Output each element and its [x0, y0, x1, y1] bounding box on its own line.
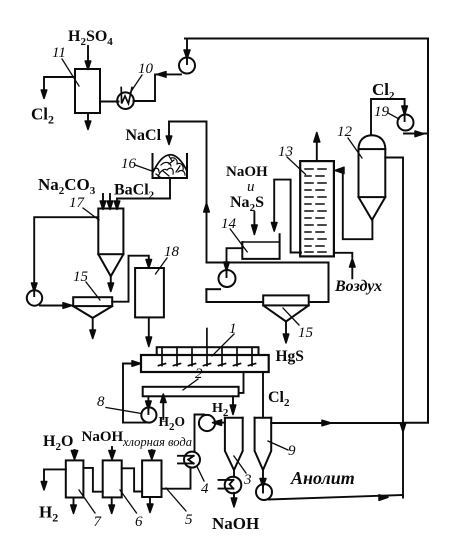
svg-text:Cl2: Cl2 — [268, 389, 290, 409]
label i (and) — [247, 179, 255, 195]
svg-text:H2: H2 — [212, 401, 229, 419]
salt dissolver 16 — [153, 154, 188, 178]
filter 15 (right) — [263, 295, 309, 321]
wire pump to heat exchanger 10 — [134, 72, 182, 101]
wire NaOH product arrow — [231, 493, 237, 507]
svg-text:NaOH: NaOH — [82, 429, 124, 445]
pump (chlorine water pump) — [199, 415, 215, 431]
label 6 — [120, 490, 143, 530]
vessel 12 (chlorine separator) — [359, 135, 386, 220]
wire overflow pipe from column 13 to vessel 14 — [271, 180, 301, 253]
svg-text:H2SO4: H2SO4 — [68, 28, 113, 48]
wire air inlet to column 13 — [334, 253, 355, 278]
svg-text:5: 5 — [185, 512, 193, 528]
label Cl2 (cell gas) — [268, 389, 290, 409]
wire tower 5 to tower 6 — [122, 468, 142, 491]
label 8 — [97, 394, 142, 414]
label 2 — [183, 366, 203, 390]
wire tower 5 feed arrow — [149, 450, 155, 460]
label Na2S — [230, 194, 264, 214]
vessel 3 (hydrogen separator) — [225, 418, 243, 470]
wire column 13 vent arrow — [314, 133, 320, 162]
wire vessel 12 vent to pump 19 — [371, 99, 407, 135]
svg-text:9: 9 — [288, 443, 296, 459]
svg-text:18: 18 — [164, 244, 180, 260]
label Na2CO3 — [38, 175, 96, 197]
svg-text:Воздух: Воздух — [334, 278, 382, 295]
wire mercury return into electrolyzer — [123, 361, 141, 423]
svg-text:7: 7 — [94, 514, 103, 530]
label chlorine water — [122, 435, 192, 449]
label BaCl2 — [114, 182, 155, 202]
vessel 17 (brine purification reactor) — [98, 209, 123, 277]
svg-text:12: 12 — [337, 124, 353, 140]
wire pump to filter 15 left — [40, 303, 73, 309]
svg-text:Cl2: Cl2 — [372, 80, 395, 102]
pump (in wash duct) — [219, 270, 236, 287]
label 13 — [278, 144, 306, 174]
label 16 — [121, 156, 152, 172]
label H2O (decomposer feed) — [159, 414, 186, 433]
filter 15 (left) — [73, 297, 112, 318]
label Vozdukh (air) — [334, 278, 382, 295]
label 18 — [156, 244, 180, 274]
wire decomposer to pump 8 — [146, 396, 152, 414]
svg-text:6: 6 — [135, 514, 143, 530]
wire vessel 9 to pump — [260, 470, 266, 493]
wire anolyte pump discharge to right bus — [269, 495, 403, 501]
label 15 right — [283, 308, 314, 341]
wire filter 15 right HgS arrow — [283, 322, 289, 344]
wire Na2CO3 feed arrows — [100, 194, 113, 210]
wire filter 15 left sludge arrow — [90, 318, 96, 339]
wire vessel 11 bottom outlet arrow — [85, 113, 91, 130]
tower 7 — [66, 460, 84, 497]
svg-text:H2: H2 — [39, 503, 58, 525]
label H2O (tower 7 feed) — [43, 433, 73, 453]
vessel 11 (H2SO4 drying tower) — [75, 69, 100, 113]
label NaOH (tank feed) — [226, 164, 268, 180]
wire vessel 17 cone outlet arrow — [108, 276, 114, 291]
svg-text:хлорная вода: хлорная вода — [122, 435, 192, 449]
svg-text:H2O: H2O — [43, 433, 73, 453]
label HgS — [276, 348, 304, 365]
pump (anolyte pump bottom) — [256, 484, 272, 500]
tower 5 — [142, 460, 161, 497]
svg-text:19: 19 — [374, 104, 390, 120]
wire vessel 12 cone to column 13 feed — [335, 167, 372, 239]
svg-text:HgS: HgS — [276, 348, 304, 365]
wire top bus into pump — [184, 39, 190, 65]
wire right bus — [400, 39, 428, 433]
svg-text:16: 16 — [121, 156, 137, 172]
pump 8 (mercury pump) — [141, 407, 156, 422]
decomposer 2 — [143, 387, 239, 397]
wire vessel 18 outlet to electrolyzer — [146, 317, 152, 346]
electrolyzer 1 anodes — [159, 329, 256, 366]
label NaOH (tower 6 feed) — [82, 429, 124, 445]
label 12 — [337, 124, 362, 158]
wire NaCl arrow into dissolver — [166, 122, 172, 145]
wire tower 6 feed arrow — [109, 447, 115, 460]
wire anolyte top line to junction — [271, 420, 403, 426]
svg-text:NaCl: NaCl — [126, 127, 162, 144]
wire vessel 17 side outlet to pump — [31, 217, 98, 296]
heat exchanger under vessel 3 — [219, 470, 242, 493]
svg-text:11: 11 — [52, 45, 66, 61]
column 13 (aeration column) — [300, 161, 334, 256]
wire vessel 11 to heat exchanger 10 — [100, 101, 119, 103]
label H2 (decomposer gas) — [212, 401, 229, 419]
wire pump 8 discharge — [123, 422, 149, 424]
label 7 — [79, 490, 103, 530]
svg-text:3: 3 — [243, 472, 252, 488]
wire pump 19 discharge to bus — [404, 131, 428, 137]
heat exchanger 4 — [178, 452, 200, 468]
tower 6 — [103, 460, 122, 497]
label NaCl — [126, 127, 162, 144]
svg-text:NaOH: NaOH — [226, 164, 268, 180]
label 10 — [130, 61, 154, 93]
label H2SO4 — [68, 28, 113, 48]
svg-text:15: 15 — [298, 325, 314, 341]
svg-text:Анолит: Анолит — [290, 468, 355, 488]
label 15 left — [73, 269, 100, 300]
wire NaOH/Na2S feed arrow — [252, 212, 258, 235]
wire tower 6 bottom arrow — [109, 497, 115, 513]
wire H2SO4 feed arrow — [85, 46, 91, 70]
svg-text:и: и — [247, 179, 255, 195]
wire Cl2 outlet left — [41, 77, 75, 99]
pump 19 (chlorine blower) — [398, 115, 414, 131]
wire HX 4 to tower 5 — [162, 467, 191, 488]
wire brine recycle riser — [169, 122, 209, 263]
wire tower 7 bottom arrow — [71, 498, 77, 514]
label NaOH product — [212, 514, 259, 533]
wire tower 7 feed arrow — [71, 450, 77, 460]
svg-text:H2O: H2O — [159, 414, 186, 433]
vessel 18 (purified brine tank) — [135, 268, 164, 317]
wire vessel 14 outlet to duct pump — [224, 248, 243, 277]
label 14 — [221, 216, 247, 252]
wire Cl2 line to vessel 9 — [262, 372, 264, 418]
vessel 9 (anolyte separator) — [255, 418, 272, 470]
svg-text:8: 8 — [97, 394, 105, 410]
pump (brine slurry pump left) — [27, 290, 42, 305]
wire tower 5 bottom arrow — [147, 497, 153, 513]
label 5 — [166, 488, 193, 528]
wire vessel 12 outlet down the right — [385, 158, 403, 498]
svg-text:Na2CO3: Na2CO3 — [38, 175, 96, 197]
wire H2 outlet to vessel 3 — [230, 396, 236, 414]
svg-text:10: 10 — [138, 61, 154, 77]
svg-text:Cl2: Cl2 — [31, 105, 54, 127]
label Cl2 left — [31, 105, 54, 127]
wire electrolyzer to decomposer (mercury amalgam) — [239, 372, 244, 393]
label 11 — [52, 45, 79, 86]
label 19 — [374, 104, 399, 120]
label 4 — [197, 467, 209, 498]
wire chlorine water pump discharge to HX 4 — [195, 415, 205, 452]
wire tower 6 to tower 7 — [83, 468, 102, 492]
wire vessel 3 side outlet to pump — [213, 420, 225, 426]
svg-text:14: 14 — [221, 216, 237, 232]
duct (wash trough) — [206, 263, 328, 303]
electrolyzer 1 body — [141, 355, 269, 372]
wire top bus — [185, 38, 428, 40]
label 1 — [212, 321, 237, 356]
wire H2O feed to decomposer — [161, 394, 167, 419]
pump (chlorine gas blower top-left) — [179, 58, 195, 74]
svg-text:Na2S: Na2S — [230, 194, 264, 214]
label 17 — [69, 195, 99, 220]
label Anolyte — [290, 468, 355, 488]
wire H2 outlet from tower 7 — [41, 469, 66, 490]
electrolyzer 1 cover — [157, 347, 259, 355]
svg-text:13: 13 — [278, 144, 293, 160]
svg-text:4: 4 — [201, 481, 209, 497]
label 3 — [234, 456, 252, 488]
label Cl2 (to pump 19) — [372, 80, 395, 102]
heat exchanger 10 — [117, 88, 134, 109]
label H2 (tail gas) — [39, 503, 58, 525]
wire dissolver outlet to vessel 17 — [114, 178, 170, 210]
svg-text:NaOH: NaOH — [212, 514, 259, 533]
label 9 — [268, 441, 296, 459]
vessel 14 (NaOH/Na2S tank) — [242, 234, 279, 259]
wire filtrate riser to vessel 18 — [112, 256, 151, 302]
